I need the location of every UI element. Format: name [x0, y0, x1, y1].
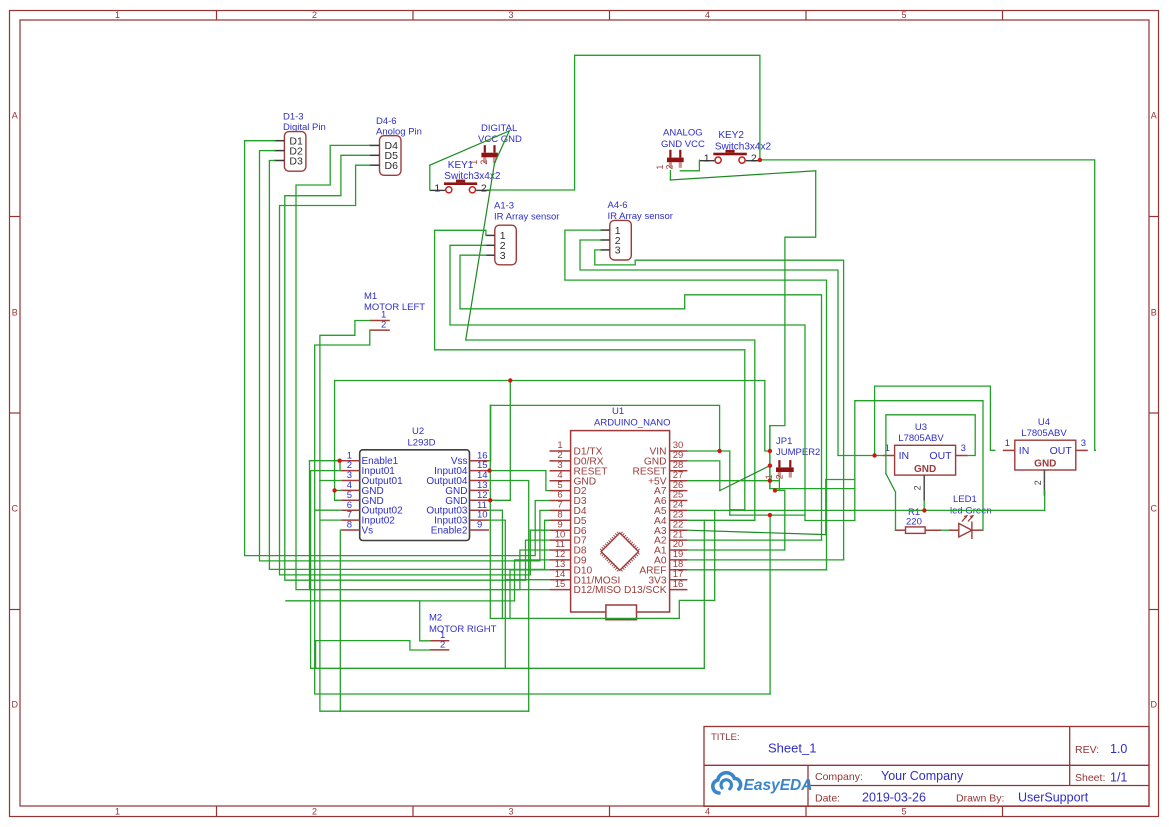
- svg-text:1: 1: [655, 165, 665, 170]
- svg-text:D: D: [11, 700, 18, 710]
- svg-text:Company:: Company:: [815, 771, 863, 783]
- svg-text:2: 2: [665, 165, 675, 170]
- svg-text:JUMPER2: JUMPER2: [776, 447, 820, 458]
- svg-text:1: 1: [764, 474, 774, 479]
- svg-text:220: 220: [906, 517, 922, 528]
- svg-text:DIGITAL: DIGITAL: [481, 123, 517, 134]
- svg-text:M1: M1: [364, 291, 377, 302]
- svg-text:2: 2: [481, 182, 487, 194]
- svg-text:A: A: [1151, 111, 1157, 121]
- svg-text:D12/MISO: D12/MISO: [574, 585, 622, 596]
- svg-text:IN: IN: [1019, 445, 1030, 457]
- svg-text:U4: U4: [1038, 417, 1050, 428]
- svg-text:5: 5: [901, 10, 906, 20]
- svg-text:1: 1: [1005, 438, 1010, 449]
- svg-text:C: C: [1150, 504, 1157, 514]
- svg-text:15: 15: [555, 579, 566, 590]
- svg-text:16: 16: [673, 579, 684, 590]
- svg-text:TITLE:: TITLE:: [711, 732, 740, 743]
- svg-text:2: 2: [312, 807, 317, 817]
- svg-text:U2: U2: [412, 426, 424, 437]
- svg-text:9: 9: [477, 520, 482, 531]
- svg-text:GND: GND: [914, 464, 936, 475]
- svg-text:1/1: 1/1: [1110, 771, 1127, 785]
- svg-text:UserSupport: UserSupport: [1018, 791, 1089, 805]
- svg-text:JP1: JP1: [776, 436, 792, 447]
- svg-text:U1: U1: [612, 406, 624, 417]
- svg-text:LED1: LED1: [953, 494, 977, 505]
- svg-text:A1-3: A1-3: [494, 201, 514, 212]
- svg-text:2: 2: [1033, 480, 1043, 485]
- svg-text:2: 2: [913, 485, 923, 490]
- svg-text:5: 5: [901, 807, 906, 817]
- svg-text:C: C: [11, 504, 18, 514]
- svg-text:ARDUINO_NANO: ARDUINO_NANO: [594, 418, 671, 429]
- svg-text:1: 1: [115, 807, 120, 817]
- svg-text:2: 2: [381, 320, 386, 331]
- svg-text:D3: D3: [289, 155, 303, 167]
- svg-text:D: D: [1150, 700, 1157, 710]
- svg-text:L7805ABV: L7805ABV: [1021, 428, 1067, 439]
- svg-text:IR Array sensor: IR Array sensor: [494, 212, 559, 223]
- svg-text:GND: GND: [1034, 459, 1056, 470]
- svg-text:ANALOG: ANALOG: [663, 128, 703, 139]
- svg-text:1: 1: [434, 182, 440, 194]
- svg-text:Sheet_1: Sheet_1: [768, 741, 816, 756]
- svg-text:M2: M2: [429, 613, 442, 624]
- svg-text:3: 3: [508, 807, 513, 817]
- svg-text:D13/SCK: D13/SCK: [624, 585, 667, 596]
- svg-text:4: 4: [705, 10, 710, 20]
- svg-text:3: 3: [1081, 438, 1086, 449]
- svg-text:2: 2: [312, 10, 317, 20]
- svg-text:Drawn By:: Drawn By:: [956, 793, 1004, 805]
- svg-text:GND VCC: GND VCC: [661, 139, 705, 150]
- svg-text:4: 4: [705, 807, 710, 817]
- svg-text:Enable2: Enable2: [431, 526, 468, 537]
- svg-text:A: A: [12, 111, 18, 121]
- svg-text:EasyEDA: EasyEDA: [744, 777, 813, 794]
- svg-text:Date:: Date:: [815, 793, 840, 805]
- svg-text:Vs: Vs: [362, 526, 374, 537]
- svg-text:D4-6: D4-6: [376, 116, 397, 127]
- svg-text:1: 1: [704, 153, 710, 165]
- svg-text:3: 3: [961, 443, 966, 454]
- svg-text:OUT: OUT: [929, 450, 952, 462]
- svg-text:B: B: [1151, 308, 1157, 318]
- svg-text:D1-3: D1-3: [283, 112, 304, 123]
- svg-text:3: 3: [615, 245, 621, 257]
- svg-text:A4-6: A4-6: [608, 200, 628, 211]
- svg-text:IN: IN: [899, 450, 910, 462]
- svg-text:3: 3: [500, 250, 506, 262]
- svg-text:Switch3x4x2: Switch3x4x2: [715, 141, 772, 152]
- svg-text:B: B: [12, 308, 18, 318]
- svg-text:MOTOR LEFT: MOTOR LEFT: [364, 302, 425, 313]
- svg-text:Your Company: Your Company: [881, 769, 964, 783]
- svg-text:L293D: L293D: [408, 437, 436, 448]
- svg-text:Sheet:: Sheet:: [1075, 772, 1105, 784]
- svg-text:2: 2: [479, 160, 489, 165]
- svg-text:2019-03-26: 2019-03-26: [862, 791, 926, 805]
- svg-text:2: 2: [751, 153, 757, 165]
- svg-text:VCC GND: VCC GND: [478, 134, 522, 145]
- svg-text:1.0: 1.0: [1110, 742, 1127, 756]
- svg-text:U3: U3: [915, 422, 927, 433]
- svg-text:L7805ABV: L7805ABV: [898, 433, 944, 444]
- svg-text:KEY1: KEY1: [448, 160, 474, 171]
- svg-text:1: 1: [115, 10, 120, 20]
- svg-text:REV:: REV:: [1075, 744, 1099, 756]
- svg-text:OUT: OUT: [1050, 445, 1073, 457]
- svg-text:KEY2: KEY2: [718, 130, 744, 141]
- svg-text:8: 8: [347, 520, 352, 531]
- svg-text:3: 3: [508, 10, 513, 20]
- svg-text:2: 2: [440, 639, 445, 650]
- svg-text:D6: D6: [385, 160, 399, 172]
